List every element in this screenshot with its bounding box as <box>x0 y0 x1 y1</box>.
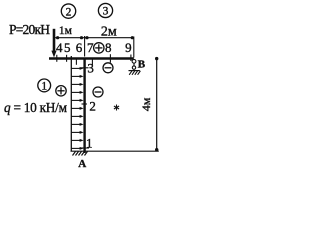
column (vertical member A-3) <box>83 58 85 153</box>
distributed load q tail line <box>70 56 72 151</box>
distributed load q arrows <box>71 67 83 150</box>
svg-text:2: 2 <box>89 98 96 113</box>
minus sign (near point 2) <box>93 87 103 97</box>
svg-text:В: В <box>138 59 146 71</box>
plus sign (moment diagram, beam span 2) <box>94 43 104 53</box>
svg-text:3: 3 <box>87 60 94 75</box>
svg-text:2: 2 <box>66 6 72 18</box>
beam (horizontal member 4-9, node B) <box>49 57 134 59</box>
svg-text:q = 10 кН/м: q = 10 кН/м <box>4 100 68 115</box>
svg-text:3: 3 <box>103 6 109 18</box>
svg-text:6: 6 <box>76 40 83 55</box>
svg-text:1: 1 <box>41 81 47 93</box>
section tick marks on beam <box>57 54 131 65</box>
svg-text:5: 5 <box>64 40 71 55</box>
minus sign (near point 3) <box>103 63 113 73</box>
svg-text:1: 1 <box>86 135 93 150</box>
svg-text:4м: 4м <box>139 97 153 111</box>
circled section number 1 <box>38 79 51 92</box>
svg-text:А: А <box>78 158 86 170</box>
svg-text:Р=20кН: Р=20кН <box>9 22 50 37</box>
circled section number 3 <box>98 3 112 17</box>
svg-text:8: 8 <box>105 40 112 55</box>
section tick marks on column (points 3,2,1) <box>80 68 89 148</box>
svg-text:2м: 2м <box>101 25 117 40</box>
force P arrow <box>51 29 56 58</box>
ground / fixed support at A with extension line <box>71 151 159 155</box>
svg-text:4: 4 <box>56 40 63 55</box>
dimension line 4m (right) <box>155 57 158 152</box>
dimension line 1m/2m <box>54 36 134 58</box>
asterisk marker <box>114 105 119 111</box>
roller link support B <box>129 59 141 74</box>
plus sign (column left side) <box>56 86 66 96</box>
svg-text:1м: 1м <box>59 25 73 37</box>
svg-text:7: 7 <box>87 40 94 55</box>
circled section number 2 <box>61 4 75 18</box>
svg-text:9: 9 <box>125 40 132 55</box>
